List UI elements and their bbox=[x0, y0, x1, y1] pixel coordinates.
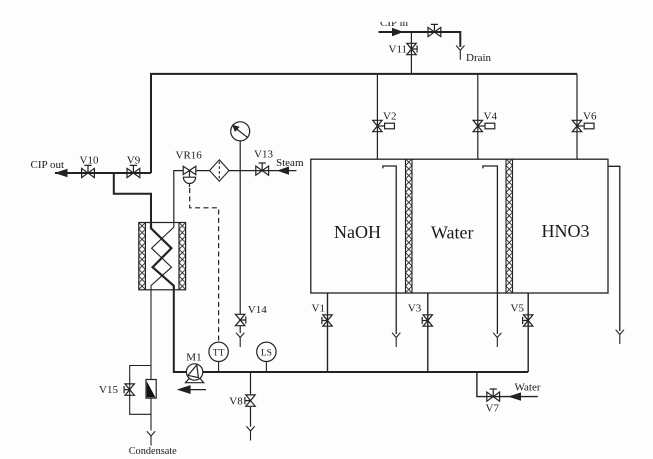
valve V2 bbox=[373, 120, 395, 131]
tank 2 dip arrow bbox=[493, 333, 501, 347]
wire V5 drop bbox=[527, 293, 529, 372]
tank 3 outlet arrow bbox=[616, 330, 624, 344]
wire main suction line bbox=[174, 290, 528, 372]
wire water inlet bbox=[477, 372, 538, 397]
valve V4 bbox=[473, 120, 495, 131]
svg-text:V4: V4 bbox=[484, 111, 498, 123]
V14 outlet arrow bbox=[236, 333, 244, 347]
svg-text:Condensate: Condensate bbox=[129, 446, 177, 457]
tank 3 outer tube bbox=[608, 166, 620, 331]
tank 2 dip tube bbox=[483, 166, 498, 334]
transmitter TT bbox=[209, 342, 228, 372]
svg-text:V11: V11 bbox=[389, 44, 408, 56]
heat exchanger E1 bbox=[139, 223, 186, 290]
svg-text:Water: Water bbox=[515, 382, 541, 394]
flow arrow Water bbox=[508, 392, 521, 400]
drain outlet arrow bbox=[456, 46, 464, 60]
svg-text:LS: LS bbox=[261, 348, 272, 358]
tank divider 1 bbox=[406, 159, 413, 293]
svg-text:Water: Water bbox=[431, 222, 474, 242]
steam trap bbox=[146, 380, 156, 399]
valve V15 bbox=[124, 384, 134, 395]
tank 1 dip arrow bbox=[392, 333, 400, 347]
svg-text:CIP out: CIP out bbox=[31, 159, 65, 171]
svg-text:Steam: Steam bbox=[276, 157, 304, 169]
condensate outlet arrow bbox=[147, 431, 155, 445]
svg-text:V5: V5 bbox=[511, 303, 525, 315]
wire V4 drop bbox=[477, 74, 479, 159]
wire V2 drop bbox=[376, 74, 378, 159]
dashed signal line VR16 to TT bbox=[190, 188, 219, 342]
valve V14 bbox=[236, 314, 246, 325]
wire condensate line bbox=[150, 290, 152, 431]
transmitter LS bbox=[257, 342, 276, 372]
flow arrow CIP out bbox=[55, 169, 68, 178]
regulating valve VR16 bbox=[183, 166, 196, 187]
flow arrow CIP in bbox=[392, 28, 404, 36]
wire V8 drop bbox=[250, 372, 252, 427]
svg-text:V7: V7 bbox=[486, 402, 500, 414]
HX thin coil (steam side) bbox=[151, 223, 174, 290]
wire gauge / V14 drop bbox=[239, 141, 241, 333]
V8 outlet arrow bbox=[246, 426, 254, 440]
pump M1 bbox=[186, 364, 204, 383]
valve V3 bbox=[422, 315, 432, 326]
svg-text:V13: V13 bbox=[254, 149, 273, 161]
flow arrow Steam bbox=[277, 167, 289, 175]
svg-text:V8: V8 bbox=[229, 396, 243, 408]
wire V3 drop bbox=[427, 293, 429, 372]
filter F1 bbox=[210, 160, 229, 181]
svg-text:V10: V10 bbox=[80, 154, 99, 166]
tank divider 2 bbox=[506, 159, 513, 293]
wire V6 drop bbox=[576, 74, 578, 159]
wire CIP in line bbox=[379, 32, 461, 47]
wire V15 bypass bbox=[130, 366, 151, 415]
svg-text:V2: V2 bbox=[383, 111, 396, 123]
valve V5 bbox=[523, 315, 533, 326]
svg-text:V3: V3 bbox=[408, 303, 422, 315]
tank 1 dip tube bbox=[383, 166, 396, 334]
valve V7 bbox=[487, 389, 500, 401]
valve V8 bbox=[245, 395, 255, 406]
wire CIP out line bbox=[55, 172, 151, 174]
svg-text:V14: V14 bbox=[248, 304, 267, 316]
svg-text:Drain: Drain bbox=[466, 52, 492, 64]
wire V11 drop bbox=[410, 32, 412, 74]
svg-text:V1: V1 bbox=[312, 303, 325, 315]
valve V1 bbox=[322, 315, 332, 326]
wire steam line bbox=[174, 171, 297, 223]
valve V11 bbox=[407, 43, 417, 54]
valve V6 bbox=[572, 120, 594, 131]
svg-text:VR16: VR16 bbox=[176, 150, 203, 162]
wire V1 drop bbox=[327, 293, 329, 372]
wire HX feed jog bbox=[114, 173, 151, 223]
pressure gauge PI bbox=[231, 122, 250, 141]
wire top manifold bbox=[151, 74, 577, 173]
svg-text:NaOH: NaOH bbox=[334, 222, 381, 242]
valve on CIP in line bbox=[428, 24, 441, 36]
svg-text:V9: V9 bbox=[127, 154, 141, 166]
svg-text:HNO3: HNO3 bbox=[542, 221, 590, 241]
svg-text:V15: V15 bbox=[99, 384, 118, 396]
svg-text:M1: M1 bbox=[186, 352, 201, 364]
valve V10 bbox=[82, 165, 95, 177]
valve V13 bbox=[256, 163, 269, 175]
valve V9 bbox=[127, 165, 140, 177]
pump flow arrow bbox=[179, 386, 206, 393]
tank block outline bbox=[311, 159, 608, 293]
svg-text:TT: TT bbox=[213, 348, 225, 358]
HX thick coil (CIP side) bbox=[151, 223, 174, 290]
svg-text:V6: V6 bbox=[583, 111, 597, 123]
